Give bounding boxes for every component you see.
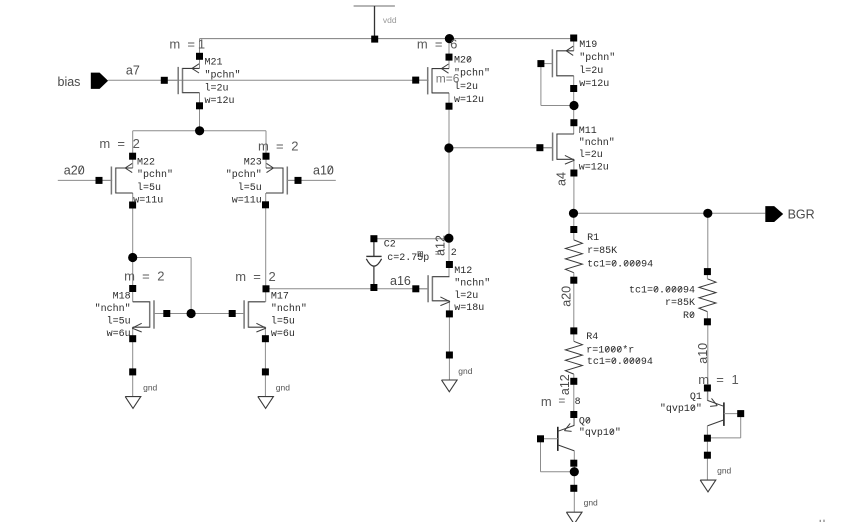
svg-text:gnd: gnd — [276, 382, 290, 392]
svg-text:"pchn": "pchn" — [137, 169, 173, 181]
svg-text:w=12u: w=12u — [579, 79, 609, 90]
svg-text:"pchn": "pchn" — [579, 52, 615, 64]
svg-text:a16: a16 — [390, 274, 411, 288]
svg-text:M23: M23 — [244, 157, 262, 168]
svg-text:w=12u: w=12u — [454, 95, 484, 106]
svg-text:gnd: gnd — [717, 466, 731, 476]
svg-text:a4: a4 — [555, 172, 569, 186]
svg-text:gnd: gnd — [143, 382, 157, 392]
svg-text:"qvp10": "qvp10" — [660, 403, 702, 415]
svg-text:w=12u: w=12u — [579, 162, 609, 173]
svg-text:m: m — [99, 136, 110, 151]
svg-text:2: 2 — [269, 269, 276, 284]
svg-text:M17: M17 — [271, 291, 289, 302]
svg-text:w=6u: w=6u — [271, 329, 295, 340]
svg-text:m: m — [169, 37, 180, 52]
svg-text:Q1: Q1 — [690, 392, 702, 403]
svg-text:=: = — [187, 37, 195, 52]
svg-text:=: = — [558, 394, 565, 408]
svg-text:w=6u: w=6u — [107, 329, 131, 340]
svg-text:=: = — [253, 269, 261, 284]
svg-text:2: 2 — [291, 139, 298, 154]
svg-text:l=2u: l=2u — [454, 81, 478, 93]
svg-text:M18: M18 — [113, 291, 131, 302]
svg-text:"pchn": "pchn" — [205, 69, 241, 81]
svg-text:tc1=0.00094: tc1=0.00094 — [629, 286, 695, 297]
svg-text:=: = — [142, 268, 150, 283]
svg-text:M12: M12 — [454, 266, 472, 277]
svg-text:vdd: vdd — [383, 15, 397, 25]
svg-text:"pchn": "pchn" — [454, 68, 490, 80]
svg-text:l=5u: l=5u — [137, 182, 161, 194]
svg-text:w=12u: w=12u — [205, 96, 235, 107]
svg-text:l=2u: l=2u — [454, 290, 478, 302]
svg-text:8: 8 — [575, 397, 581, 408]
svg-text:=: = — [117, 136, 125, 151]
svg-text:R4: R4 — [586, 332, 598, 343]
svg-text:2: 2 — [133, 136, 140, 151]
svg-text:tc1=0.00094: tc1=0.00094 — [587, 260, 653, 271]
svg-text:l=2u: l=2u — [205, 82, 229, 94]
svg-text:m: m — [124, 268, 135, 283]
svg-text:6: 6 — [450, 37, 457, 52]
svg-text:r=1000*r: r=1000*r — [586, 344, 634, 356]
svg-text:R1: R1 — [587, 233, 599, 244]
svg-text:"nchn": "nchn" — [271, 303, 307, 315]
svg-text:"pchn": "pchn" — [226, 169, 262, 181]
svg-text:a10: a10 — [696, 343, 710, 364]
svg-text:r=85K: r=85K — [587, 246, 617, 257]
svg-text:w=11u: w=11u — [133, 196, 163, 207]
svg-text:1: 1 — [198, 37, 205, 52]
svg-text:M21: M21 — [205, 58, 223, 69]
svg-text:=: = — [435, 37, 443, 52]
svg-text:a7: a7 — [126, 64, 140, 78]
svg-text:M19: M19 — [579, 40, 597, 51]
svg-text:a10: a10 — [313, 164, 334, 178]
svg-text:=: = — [276, 139, 284, 154]
svg-text:"qvp10": "qvp10" — [579, 427, 621, 439]
svg-text:l=2u: l=2u — [579, 149, 603, 161]
svg-text:c=2.75p: c=2.75p — [387, 253, 429, 264]
svg-text:a12: a12 — [558, 374, 572, 395]
svg-text:a20: a20 — [560, 286, 574, 307]
svg-text:gnd: gnd — [458, 366, 472, 376]
svg-text:l=5u: l=5u — [107, 316, 131, 328]
svg-text:m: m — [417, 37, 428, 52]
svg-text:w=11u: w=11u — [232, 196, 262, 207]
svg-text:1: 1 — [732, 372, 739, 387]
svg-text:l=5u: l=5u — [271, 316, 295, 328]
svg-text:w=18u: w=18u — [454, 303, 484, 314]
svg-text:m: m — [541, 394, 552, 409]
svg-text:"nchn": "nchn" — [579, 137, 615, 149]
svg-text:m: m — [698, 372, 709, 387]
svg-text:M20: M20 — [454, 55, 472, 66]
svg-text:a20: a20 — [64, 164, 85, 178]
svg-text:M22: M22 — [137, 157, 155, 168]
svg-text:l=5u: l=5u — [238, 182, 262, 194]
svg-text:M11: M11 — [579, 126, 597, 137]
svg-text:C2: C2 — [384, 240, 396, 251]
svg-text:tc1=0.00094: tc1=0.00094 — [587, 357, 653, 368]
svg-text:2: 2 — [157, 268, 164, 283]
svg-text:2: 2 — [451, 248, 457, 259]
svg-text:m: m — [258, 139, 269, 154]
svg-text:=: = — [435, 249, 442, 261]
svg-text:"nchn": "nchn" — [95, 303, 131, 315]
svg-text:r=85K: r=85K — [665, 298, 695, 309]
svg-text:"nchn": "nchn" — [454, 277, 490, 289]
svg-text:BGR: BGR — [788, 207, 815, 221]
svg-text:gnd: gnd — [584, 498, 598, 508]
svg-text:bias: bias — [58, 75, 81, 89]
svg-text:l=2u: l=2u — [579, 65, 603, 77]
svg-text:=: = — [716, 372, 724, 387]
svg-text:m: m — [235, 269, 246, 284]
